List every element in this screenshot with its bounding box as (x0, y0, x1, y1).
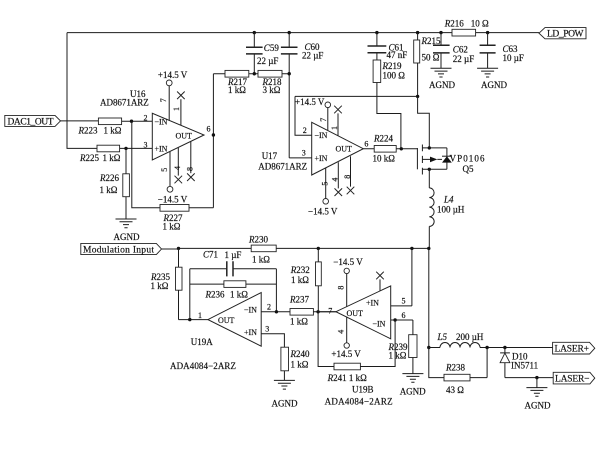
svg-text:4: 4 (337, 330, 346, 334)
svg-text:C71: C71 (203, 250, 218, 260)
svg-text:1 kΩ: 1 kΩ (104, 126, 122, 136)
svg-text:1 kΩ: 1 kΩ (290, 317, 308, 327)
svg-text:8: 8 (185, 167, 194, 171)
svg-text:R226: R226 (99, 173, 120, 183)
svg-text:IN5711: IN5711 (511, 360, 538, 370)
svg-text:100 µH: 100 µH (437, 205, 465, 215)
svg-text:3: 3 (302, 149, 306, 158)
svg-text:3 kΩ: 3 kΩ (263, 85, 281, 95)
svg-text:R224: R224 (373, 134, 394, 144)
svg-text:4: 4 (173, 166, 182, 170)
svg-text:R241 1 kΩ: R241 1 kΩ (327, 373, 368, 383)
svg-text:2: 2 (267, 303, 271, 312)
svg-text:7: 7 (159, 98, 168, 102)
svg-text:+IN: +IN (366, 299, 379, 308)
svg-text:3: 3 (144, 140, 148, 149)
svg-text:OUT: OUT (347, 309, 364, 318)
svg-text:4: 4 (331, 178, 340, 182)
svg-text:AGND: AGND (272, 399, 298, 409)
svg-text:1 kΩ: 1 kΩ (230, 290, 248, 300)
svg-text:DAC1_OUT: DAC1_OUT (8, 117, 54, 127)
svg-text:+IN: +IN (155, 145, 168, 154)
svg-text:2: 2 (144, 113, 148, 122)
svg-text:7: 7 (328, 306, 332, 315)
svg-text:Modulation Input: Modulation Input (83, 245, 154, 255)
svg-text:100 Ω: 100 Ω (383, 71, 406, 81)
svg-text:22 µF: 22 µF (302, 51, 323, 61)
svg-text:R238: R238 (445, 363, 466, 373)
svg-text:−14.5 V: −14.5 V (308, 206, 338, 216)
svg-text:−IN: −IN (244, 305, 257, 314)
svg-text:L5: L5 (437, 332, 448, 342)
svg-text:ADA4084−2ARZ: ADA4084−2ARZ (325, 397, 393, 407)
svg-text:200 µH: 200 µH (456, 332, 484, 342)
svg-text:1 µF: 1 µF (225, 250, 242, 260)
svg-text:AGND: AGND (525, 401, 551, 411)
svg-text:R225: R225 (79, 153, 100, 163)
svg-text:6: 6 (207, 125, 211, 134)
svg-text:22 µF: 22 µF (257, 56, 278, 66)
svg-text:−14.5 V: −14.5 V (333, 257, 363, 267)
svg-text:5: 5 (402, 297, 406, 306)
svg-text:Q5: Q5 (463, 164, 474, 174)
svg-text:AD8671ARZ: AD8671ARZ (258, 162, 307, 172)
svg-text:AGND: AGND (114, 232, 140, 242)
svg-text:22 µF: 22 µF (453, 54, 474, 64)
svg-text:U17: U17 (262, 151, 278, 161)
svg-text:−IN: −IN (373, 319, 386, 328)
svg-text:7: 7 (319, 118, 328, 122)
svg-text:OUT: OUT (336, 144, 353, 153)
svg-text:−IN: −IN (315, 131, 328, 140)
svg-text:1 kΩ: 1 kΩ (252, 255, 270, 265)
svg-text:R232: R232 (290, 265, 310, 275)
svg-text:+14.5 V: +14.5 V (295, 97, 325, 107)
svg-text:1 kΩ: 1 kΩ (103, 153, 121, 163)
svg-text:1 kΩ: 1 kΩ (100, 185, 118, 195)
svg-text:U19B: U19B (352, 385, 374, 395)
svg-text:6: 6 (364, 140, 368, 149)
svg-text:10 Ω: 10 Ω (471, 19, 489, 29)
svg-text:1 kΩ: 1 kΩ (389, 351, 407, 361)
svg-text:R223: R223 (78, 126, 99, 136)
svg-text:+IN: +IN (315, 154, 328, 163)
svg-text:1: 1 (172, 107, 181, 111)
svg-text:AD8671ARZ: AD8671ARZ (100, 98, 149, 108)
svg-text:1 kΩ: 1 kΩ (151, 281, 169, 291)
svg-text:OUT: OUT (218, 316, 235, 325)
svg-text:−14.5 V: −14.5 V (158, 195, 188, 205)
svg-text:3: 3 (265, 325, 269, 334)
svg-text:LASER+: LASER+ (555, 345, 590, 355)
svg-text:R216: R216 (444, 19, 465, 29)
svg-text:8: 8 (337, 286, 346, 290)
svg-text:R219: R219 (382, 61, 403, 71)
svg-text:LASER−: LASER− (555, 374, 590, 384)
svg-text:R240: R240 (290, 349, 311, 359)
svg-text:5: 5 (321, 182, 330, 186)
svg-text:50 Ω: 50 Ω (422, 53, 440, 63)
svg-text:C62: C62 (453, 44, 468, 54)
svg-text:+IN: +IN (244, 328, 257, 337)
svg-text:6: 6 (402, 311, 406, 320)
svg-text:43 Ω: 43 Ω (446, 385, 464, 395)
svg-text:10 kΩ: 10 kΩ (373, 154, 396, 164)
svg-text:OUT: OUT (176, 132, 193, 141)
svg-text:AGND: AGND (429, 80, 455, 90)
svg-text:L4: L4 (443, 195, 454, 205)
svg-text:8: 8 (343, 175, 352, 179)
svg-text:1: 1 (330, 126, 339, 130)
svg-text:10 µF: 10 µF (503, 53, 524, 63)
svg-text:AGND: AGND (481, 80, 507, 90)
svg-text:R237: R237 (289, 295, 310, 305)
svg-text:5: 5 (160, 168, 169, 172)
svg-text:+14.5 V: +14.5 V (158, 70, 188, 80)
svg-text:ADA4084−2ARZ: ADA4084−2ARZ (170, 361, 236, 371)
svg-text:C59: C59 (264, 43, 280, 53)
svg-text:LD_POW: LD_POW (547, 29, 584, 39)
svg-text:+14.5 V: +14.5 V (331, 349, 361, 359)
svg-text:1: 1 (198, 311, 202, 320)
svg-text:−IN: −IN (155, 117, 168, 126)
svg-text:U19A: U19A (191, 337, 213, 347)
svg-text:R236: R236 (205, 290, 226, 300)
svg-text:47 nF: 47 nF (387, 50, 408, 60)
svg-text:1 kΩ: 1 kΩ (291, 360, 309, 370)
svg-text:R230: R230 (248, 235, 269, 245)
svg-text:2: 2 (303, 126, 307, 135)
svg-text:AGND: AGND (400, 387, 426, 397)
svg-text:R215: R215 (421, 36, 442, 46)
svg-text:1 kΩ: 1 kΩ (228, 85, 246, 95)
svg-text:VP0106: VP0106 (450, 154, 486, 164)
svg-text:1 kΩ: 1 kΩ (163, 222, 181, 232)
svg-text:1 kΩ: 1 kΩ (291, 275, 309, 285)
